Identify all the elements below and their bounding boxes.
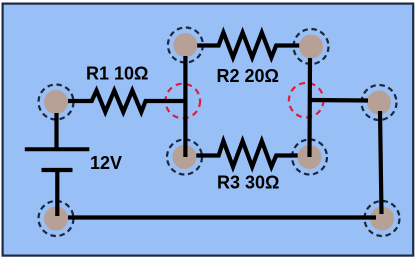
node 5 terminal (mid-left) — [173, 145, 197, 169]
wire node4 down to node8 — [380, 111, 382, 214]
node 6 terminal (mid-right) — [298, 145, 322, 169]
junction node A (red dashed circle, left) — [166, 84, 201, 119]
node 8 terminal (bottom-right) — [370, 207, 394, 231]
wire junction B to node4 — [309, 98, 368, 103]
node 2 terminal (top-left) — [173, 33, 197, 57]
wire node7 to node8 (bottom) — [68, 215, 376, 219]
junction node B (red dashed circle, right) — [289, 83, 324, 118]
wire node1 down to battery + — [54, 113, 58, 148]
wire node2 down to node5 through junction A — [183, 56, 187, 157]
battery B1 negative plate (short) — [42, 168, 73, 172]
resistor R2 with leads (node2 to node3) — [197, 33, 299, 58]
battery B1 positive plate (long) — [25, 147, 90, 151]
resistor R3 with leads (node5 to node6) — [196, 141, 297, 167]
node 7 terminal (bottom-left) — [44, 207, 68, 231]
node 4 terminal (right) — [367, 91, 391, 115]
svg-text:R1 10Ω: R1 10Ω — [86, 64, 148, 84]
svg-text:12V: 12V — [90, 153, 122, 173]
node 3 terminal (top-right) — [299, 35, 323, 59]
svg-text:R3 30Ω: R3 30Ω — [217, 173, 279, 193]
wire battery - down to node7 — [55, 172, 59, 216]
wire node3 down to node6 through junction B — [307, 58, 312, 157]
svg-text:R2 20Ω: R2 20Ω — [217, 66, 279, 86]
resistor R1 with leads (node1 to junction A) — [68, 91, 187, 113]
node 1 terminal (left) — [44, 90, 68, 114]
